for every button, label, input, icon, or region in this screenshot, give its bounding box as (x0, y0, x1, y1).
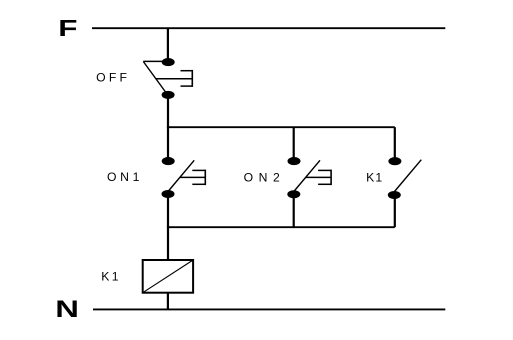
svg-text:F: F (58, 15, 77, 41)
contact K1 (NO) (388, 157, 422, 199)
svg-text:ON1: ON1 (107, 170, 140, 184)
svg-text:ON2: ON2 (244, 170, 280, 184)
svg-text:N: N (55, 296, 79, 323)
wire ON1 bottom to coil (167, 194, 169, 260)
wire parallel bottom rail (167, 226, 395, 228)
wire coil bottom to N rail (167, 293, 169, 310)
pushbutton ON2 (NO) (287, 157, 331, 198)
svg-text:OFF: OFF (96, 71, 127, 85)
pushbutton ON1 (NO) (162, 157, 206, 198)
wire ON2 branch top (293, 127, 295, 161)
wire ON2 branch bottom (293, 194, 295, 227)
relay coil K1 (143, 260, 193, 293)
wire F rail to OFF top (167, 28, 169, 62)
wire F rail (92, 27, 445, 29)
wire K1 branch bottom (394, 195, 396, 227)
pushbutton OFF (NC) (143, 58, 192, 99)
wire parallel top rail (167, 126, 395, 128)
wire N rail (93, 308, 445, 310)
wire OFF bottom to ON1 top (167, 95, 169, 161)
wire K1 branch top (394, 127, 396, 161)
